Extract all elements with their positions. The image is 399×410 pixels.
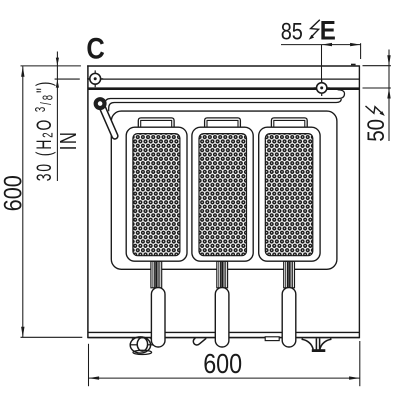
dim 50: arrows [387, 55, 390, 65]
datum circle C (water) [87, 70, 103, 87]
svg-text:IN: IN [57, 131, 82, 150]
basket 2 perforated area [199, 134, 247, 256]
basket 3 tab [271, 118, 307, 128]
unit right edge [358, 65, 360, 338]
dim 85: tick at edge [360, 43, 362, 59]
dim 600 left: arrows [21, 66, 24, 77]
dim 30 water: leader line [56, 52, 58, 182]
front thick edge line [88, 87, 359, 90]
dim 600 bottom: line [89, 377, 360, 379]
dim 600 left: extension bottom [21, 336, 83, 338]
svg-text:85: 85 [281, 18, 303, 45]
dim 50: extension bottom [363, 87, 391, 89]
basket 2 rim [192, 127, 253, 261]
dim 50: extension top [363, 65, 391, 67]
svg-text:600: 600 [203, 349, 242, 379]
drain hook [193, 338, 206, 345]
dim 600 left: extension top [21, 65, 81, 67]
basket 3 rim [259, 127, 320, 261]
dim 85: arrows [322, 43, 333, 46]
dim 600 bottom: extension right [359, 341, 361, 386]
small rect fitting [265, 337, 279, 341]
basket 1 stem [151, 261, 162, 287]
band extension segment left [55, 78, 80, 80]
svg-text:E: E [320, 16, 336, 45]
back band line [88, 78, 359, 80]
basket 3 handle [282, 288, 296, 347]
tray rim outer line [105, 90, 345, 111]
basket 2 tab [205, 118, 241, 128]
basket 1 rim [126, 127, 187, 261]
corner dash [351, 64, 356, 66]
basket 1 perforated area [133, 134, 180, 256]
lightning bolt right [366, 106, 382, 113]
basket 2 handle [215, 288, 229, 347]
adjustable foot [302, 338, 330, 351]
unit top edge [87, 65, 359, 67]
dim 85: line [281, 44, 361, 46]
unit left edge [87, 65, 89, 338]
svg-text:600: 600 [0, 175, 27, 211]
cooking well [111, 111, 337, 269]
tray rim inner line [109, 99, 342, 111]
caster wheel [130, 337, 155, 355]
lever bar [102, 107, 115, 137]
basket 3 stem [284, 261, 295, 287]
lever knob [96, 99, 105, 108]
unit bottom line 1 [88, 331, 359, 333]
svg-text:30 (H2O 3/8"): 30 (H2O 3/8") [32, 80, 56, 182]
datum circle E (electric) [314, 80, 330, 96]
dim 30 arrows [56, 58, 59, 66]
dim 85: tick at circle [321, 45, 323, 82]
dim 600 left: line [22, 66, 24, 337]
dim 600 bottom: arrows [89, 376, 100, 379]
svg-text:C: C [86, 31, 104, 64]
dim 50: line [388, 50, 390, 142]
dim 600 bottom: extension left [88, 344, 90, 386]
svg-text:50: 50 [363, 119, 390, 142]
unit bottom line 2 [88, 337, 359, 339]
basket 1 tab [138, 118, 174, 128]
lightning bolt top [311, 20, 320, 37]
basket 1 handle [151, 288, 165, 347]
basket 3 perforated area [265, 134, 313, 256]
basket 2 stem [217, 261, 228, 287]
